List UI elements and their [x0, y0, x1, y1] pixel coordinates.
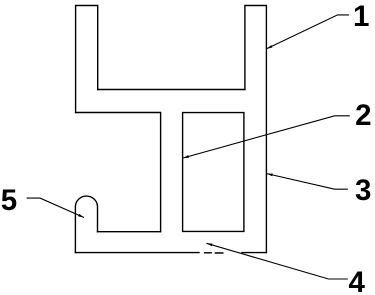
svg-text:4: 4 — [348, 266, 365, 295]
svg-text:3: 3 — [355, 174, 371, 207]
svg-text:2: 2 — [355, 99, 371, 132]
svg-text:1: 1 — [353, 0, 369, 33]
svg-text:5: 5 — [1, 184, 17, 217]
